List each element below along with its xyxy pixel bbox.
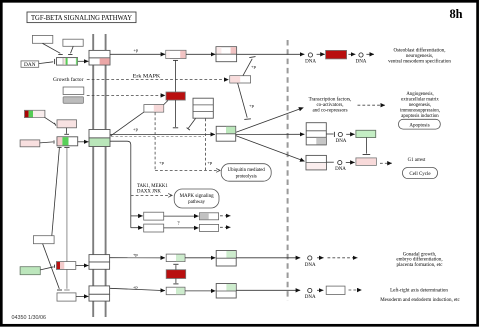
arrow complex to DNA row1 xyxy=(237,53,305,55)
svg-text:neurogenesis,: neurogenesis, xyxy=(406,54,433,59)
gene box Id (red) xyxy=(326,50,347,59)
gene box Smad7 (red) xyxy=(166,92,185,100)
pathway box ubiquitin proteolysis xyxy=(221,164,271,182)
inhibition ERK down to row2 xyxy=(238,83,251,119)
dashed arrow to MAPK pathway xyxy=(131,194,172,196)
svg-text:apoptosis induction: apoptosis induction xyxy=(401,114,439,119)
line THBS1 to LTBP xyxy=(45,117,56,125)
svg-text:DAN: DAN xyxy=(24,62,36,68)
branch line to TAK1 rows xyxy=(110,141,131,228)
DNA circle row4 xyxy=(305,256,316,268)
svg-text:Left-right axis determination: Left-right axis determination xyxy=(390,289,448,294)
dashed to ubiquitin arrow xyxy=(155,169,220,171)
DNA circle row1b xyxy=(356,53,367,64)
inhibition LTBP to TGFB xyxy=(64,128,69,135)
box LTBP1 xyxy=(57,120,77,128)
dashed arrow row4 out xyxy=(220,215,230,217)
box TGF-beta ligand complex xyxy=(57,137,78,146)
receptor TGFBR1 (green) xyxy=(89,138,110,147)
svg-text:DNA: DNA xyxy=(305,263,316,268)
svg-text:Mesoderm and endoderm inductio: Mesoderm and endoderm induction, etc xyxy=(380,298,460,303)
svg-text:DNA: DNA xyxy=(336,139,347,144)
dashed Smurf to ubiquitin xyxy=(154,113,156,171)
arrow to c-myc xyxy=(346,133,355,135)
box TNF alpha (gray) xyxy=(63,97,83,104)
dashed sub line row2 xyxy=(111,136,204,138)
text gonadal growth xyxy=(396,252,443,267)
line Smurf to red box xyxy=(164,101,168,105)
svg-text:G1 arrest: G1 arrest xyxy=(408,158,426,163)
receptor NodalR2 xyxy=(89,286,110,294)
arrow row4 after DNA xyxy=(317,257,324,259)
box Smurf xyxy=(144,105,164,113)
inhibition DAN to BMP xyxy=(39,59,55,64)
svg-text:extracellular matrix: extracellular matrix xyxy=(401,98,439,103)
DNA circle row3 xyxy=(335,161,346,173)
receptor ActivinR2 xyxy=(89,255,110,262)
svg-text:Osteoblast differentiation,: Osteoblast differentiation, xyxy=(393,49,445,54)
arrow row5 after DNA xyxy=(317,289,323,291)
text angiogenesis xyxy=(400,92,440,119)
membrane line left xyxy=(92,34,94,317)
box MEKK (gray half) xyxy=(199,213,218,220)
dashed arrow row5 out xyxy=(220,226,230,228)
inhibition red up xyxy=(173,264,178,269)
arrow to outcome row1 xyxy=(366,53,374,55)
box Smad complex row5 xyxy=(216,284,236,299)
box Activin (green) xyxy=(20,267,40,275)
svg-text:ventral mesoderm specification: ventral mesoderm specification xyxy=(388,60,451,65)
box Smad2/3 row4 xyxy=(166,254,185,262)
receptor ActivinR1 xyxy=(89,262,110,269)
arrow complex to TF text xyxy=(236,108,303,133)
inhibition Decorin to TGFB xyxy=(40,140,54,143)
arrow receptor to Smad2/3 xyxy=(110,133,215,135)
pathway box Cell Cycle xyxy=(403,168,438,179)
svg-text:neogenesis,: neogenesis, xyxy=(409,103,431,108)
dashed arrow TF to angiogenesis xyxy=(358,104,386,106)
svg-text:TAK1, MEKK1: TAK1, MEKK1 xyxy=(137,184,168,189)
title box xyxy=(27,12,136,23)
svg-text:immunosuppression,: immunosuppression, xyxy=(400,108,440,113)
inhibition Lefty to Nodal xyxy=(43,244,62,290)
DNA circle row2 xyxy=(336,132,347,144)
arrow to complex row5 xyxy=(185,290,215,292)
dashed arrow row5 to outcome xyxy=(349,289,362,291)
arrow complex to p15 box xyxy=(236,136,305,162)
box Smad1/5/8 xyxy=(166,50,186,58)
dashed Smad4 to ubiquitin xyxy=(205,119,207,171)
pathway box Apoptosis xyxy=(399,119,441,129)
dashed arrow to Smad7 red box xyxy=(87,94,165,96)
svg-text:+p: +p xyxy=(159,160,165,165)
line receptor to Smurf xyxy=(111,112,144,136)
dashed arrow to G1 arrest xyxy=(380,162,392,164)
nucleus dashed line xyxy=(287,40,289,301)
pathway box MAPK signaling xyxy=(174,189,219,208)
box Decorin xyxy=(20,140,40,147)
line to DNA row3 xyxy=(326,161,333,163)
arrow to complex row4 xyxy=(185,257,215,259)
svg-text:Gonadal growth,: Gonadal growth, xyxy=(403,252,437,257)
svg-text:DAXX JNK: DAXX JNK xyxy=(137,190,161,195)
membrane line right xyxy=(105,34,107,317)
box cofactor stack xyxy=(306,123,326,145)
svg-text:TGF-BETA SIGNALING PATHWAY: TGF-BETA SIGNALING PATHWAY xyxy=(31,14,133,22)
arrow ligand to ActivinR xyxy=(76,265,89,267)
arrow branch to row5 box xyxy=(131,227,143,229)
svg-text:+p: +p xyxy=(133,252,139,257)
svg-text:+p: +p xyxy=(251,64,257,69)
inhibition Chordin to BMP xyxy=(43,43,63,54)
box Activin ligand xyxy=(56,262,75,270)
DNA circle row5 xyxy=(305,288,316,300)
dashed line growth factor to ERK xyxy=(87,79,229,81)
receptor BMPR2 xyxy=(89,50,110,58)
arrow receptor to Smad2 row4 xyxy=(110,257,165,259)
box Smad complex row4 xyxy=(216,251,236,267)
svg-text:Angiogenesis,: Angiogenesis, xyxy=(406,92,433,97)
arrow receptor to Smad2 row5 xyxy=(110,288,165,290)
inhibition Noggin to BMP xyxy=(68,46,73,54)
box BMP ligand complex xyxy=(57,58,78,66)
arrow to p15 gene xyxy=(346,161,355,163)
arrow Smad1 to Smad4 complex xyxy=(186,53,215,55)
arrow complex to DNA row4 xyxy=(236,257,300,259)
T-bar to DNA row2 xyxy=(326,132,334,137)
long inhibition line TGFB to Nodal xyxy=(64,148,69,290)
svg-text:Cell Cycle: Cell Cycle xyxy=(409,172,431,177)
DNA circle row1a xyxy=(305,53,316,64)
svg-text:8h: 8h xyxy=(449,7,462,21)
svg-text:+p: +p xyxy=(207,160,213,165)
box Smad2/3 row5 xyxy=(166,287,185,295)
receptor TGFBR2 xyxy=(89,130,110,138)
gene box Pitx2 xyxy=(326,286,345,294)
svg-text:proteolysis: proteolysis xyxy=(236,175,257,180)
inhibition Smad7red to Smad2/3 xyxy=(173,100,178,128)
svg-text:DNA: DNA xyxy=(356,59,367,64)
svg-text:and co-repressors: and co-repressors xyxy=(312,108,347,113)
gene box p15 (pink) xyxy=(356,158,377,166)
arrow TGFB to receptor xyxy=(78,141,89,143)
outcome text osteoblast xyxy=(388,49,451,65)
svg-text:+p: +p xyxy=(249,103,255,108)
svg-text:placenta formation, etc: placenta formation, etc xyxy=(397,263,444,268)
svg-text:04350 1/30/06: 04350 1/30/06 xyxy=(12,315,46,321)
svg-text:Apoptosis: Apoptosis xyxy=(409,123,429,128)
receptor BMPR1 xyxy=(89,58,110,65)
arrow to Id gene xyxy=(317,53,325,55)
svg-text:DNA: DNA xyxy=(335,167,346,172)
inhibition Smurf to Smad1 xyxy=(173,60,178,92)
box IFN gamma xyxy=(63,87,84,95)
svg-text:Transcription factors,: Transcription factors, xyxy=(309,97,352,102)
svg-text:pathway: pathway xyxy=(188,200,205,205)
svg-text:+p: +p xyxy=(133,48,139,53)
box Chordin xyxy=(32,35,52,43)
svg-text:MAPK signaling: MAPK signaling xyxy=(180,194,215,199)
arrow Nodal to receptor xyxy=(76,295,88,297)
svg-text:co-activators,: co-activators, xyxy=(316,103,343,108)
arrow TAK1 to MEKK xyxy=(164,215,199,217)
svg-text:DNA: DNA xyxy=(305,59,316,64)
svg-text:Erk MAPK: Erk MAPK xyxy=(133,74,161,79)
arrow Id to DNA xyxy=(348,53,355,55)
box THBS1 (red-green) xyxy=(25,110,45,117)
arrow DAXX to JNK xyxy=(164,227,199,229)
svg-text:Ubiquitin mediated: Ubiquitin mediated xyxy=(228,168,266,173)
arrow branch to row4 box xyxy=(131,215,143,217)
box JNK xyxy=(199,224,218,231)
inhibition red down xyxy=(173,279,178,284)
line Activin to ligand xyxy=(40,265,54,270)
svg-text:+p: +p xyxy=(133,127,139,132)
box DAXX row5 left xyxy=(144,224,164,232)
label TAK1 MEKK1 xyxy=(137,184,168,194)
line Smad4 to complex xyxy=(187,119,196,131)
dashed arrow row4 to outcome xyxy=(328,257,358,259)
box Smad2/3-Smad4 complex xyxy=(216,126,236,141)
box Nodal ligand xyxy=(57,293,76,301)
arrow BMP to receptor xyxy=(78,60,89,62)
svg-text:DNA: DNA xyxy=(305,295,316,300)
box DAN xyxy=(21,61,39,68)
arrow complex to DNA row5 xyxy=(236,289,300,291)
svg-text:Growth factor: Growth factor xyxy=(53,76,84,83)
gene box Smad7b (red) xyxy=(166,270,186,279)
receptor NodalR1 xyxy=(89,294,110,301)
T-bar heads under TGFB complex xyxy=(57,146,69,148)
box ERK xyxy=(230,76,251,83)
inhibition line via Lefty box xyxy=(52,148,60,236)
box TAK1 row4 left xyxy=(144,212,164,220)
arrow complex to cofactor box xyxy=(236,133,305,135)
gene box c-myc (green) xyxy=(356,130,376,137)
text transcription factors xyxy=(309,97,352,113)
inhibition ERK up to row1 xyxy=(243,57,256,76)
inhibition c-myc to p15 xyxy=(363,138,371,155)
box Smad1-Smad4 complex xyxy=(216,47,237,62)
box Smad4 stack xyxy=(193,98,213,118)
box p15 complex xyxy=(306,155,326,170)
box Noggin xyxy=(63,39,83,46)
arrow receptor to Smad1 xyxy=(110,53,165,55)
box Lefty xyxy=(33,236,54,244)
